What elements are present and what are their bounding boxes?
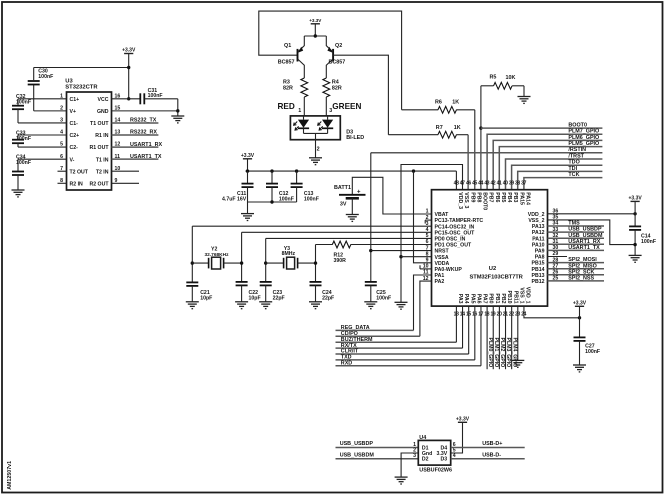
svg-text:USART1_TX: USART1_TX	[568, 245, 600, 251]
wire PA2 to CDIPO	[420, 281, 432, 336]
svg-text:3: 3	[426, 221, 429, 227]
svg-text:10pF: 10pF	[200, 295, 212, 301]
svg-text:32.768KHz: 32.768KHz	[205, 252, 230, 258]
net TMS	[548, 225, 605, 227]
svg-text:PB10: PB10	[506, 291, 512, 304]
svg-text:+3.3V: +3.3V	[573, 301, 587, 307]
wire U2 pin 16 down	[474, 306, 476, 360]
transistor Q1 BC857	[297, 49, 299, 62]
capacitor C21 10pF	[186, 281, 198, 283]
wire cap bottoms	[248, 201, 297, 203]
svg-text:PLM7_GPIO: PLM7_GPIO	[568, 129, 599, 135]
svg-text:C1+: C1+	[70, 97, 80, 103]
svg-text:USART1_RX: USART1_RX	[130, 142, 162, 148]
crystal Y2 32.768KHz	[191, 226, 193, 282]
svg-text:3: 3	[413, 453, 416, 459]
svg-text:VCC: VCC	[98, 97, 109, 103]
svg-text:10pF: 10pF	[249, 296, 261, 302]
svg-text:PA11: PA11	[532, 236, 544, 242]
wire U2 pin 17 down	[480, 306, 482, 366]
svg-text:PA2: PA2	[435, 279, 445, 285]
svg-text:TCK: TCK	[568, 172, 579, 178]
net /RSTIN	[371, 152, 603, 154]
svg-text:48: 48	[454, 180, 459, 186]
wire VSS_2	[548, 220, 636, 245]
svg-text:40: 40	[503, 180, 508, 186]
ground under D3	[309, 157, 322, 159]
svg-text:TMS: TMS	[568, 221, 580, 227]
svg-text:100nF: 100nF	[641, 239, 656, 245]
svg-text:BOOT0: BOOT0	[482, 192, 488, 210]
capacitor C32 100nF	[18, 98, 67, 100]
svg-text:R1 OUT: R1 OUT	[89, 145, 109, 151]
net CD/PO	[336, 335, 420, 337]
U3 pin 7 stub	[58, 170, 67, 172]
svg-text:PB2: PB2	[500, 293, 506, 303]
wire PC15-OSC_OUT	[242, 231, 432, 233]
svg-text:/TRST: /TRST	[568, 153, 584, 159]
net PLM6_GPIO	[493, 140, 602, 189]
svg-text:PLM5_GPIO: PLM5_GPIO	[568, 141, 599, 147]
net PLM0_GPIO	[486, 306, 488, 369]
svg-text:PA0-WKUP: PA0-WKUP	[435, 267, 463, 273]
svg-text:12: 12	[423, 276, 429, 282]
svg-text:PB15: PB15	[532, 261, 545, 267]
led green element	[327, 116, 329, 120]
svg-text:BATT1: BATT1	[334, 185, 351, 191]
svg-text:Y2: Y2	[211, 246, 217, 252]
svg-text:D3: D3	[441, 457, 448, 463]
svg-text:47: 47	[460, 180, 465, 186]
svg-text:100nF: 100nF	[16, 100, 31, 106]
net PLM5_GPIO	[499, 147, 602, 190]
svg-text:43: 43	[484, 180, 489, 186]
resistor R4 82R	[323, 78, 330, 97]
svg-text:38: 38	[515, 180, 520, 186]
net SPI2_SCK	[548, 274, 605, 276]
wire /RSTIN to NRST and C25	[370, 153, 372, 282]
capacitor C13 100nF	[296, 171, 298, 184]
svg-text:R2 IN: R2 IN	[70, 181, 84, 187]
svg-text:PC15-OSC_OUT: PC15-OSC_OUT	[435, 230, 476, 236]
svg-text:VDDA: VDDA	[435, 261, 450, 267]
net TCK	[524, 178, 603, 190]
svg-text:NRST: NRST	[435, 249, 450, 255]
svg-text:USB-D+: USB-D+	[482, 441, 502, 447]
svg-text:100nF: 100nF	[16, 136, 31, 142]
svg-text:4.7uF 16V: 4.7uF 16V	[222, 196, 247, 202]
svg-text:/RSTIN: /RSTIN	[568, 147, 586, 153]
svg-text:PLM0_GPIO: PLM0_GPIO	[487, 338, 493, 368]
svg-text:100nF: 100nF	[304, 196, 319, 202]
svg-text:PA6: PA6	[475, 294, 481, 304]
power +3.3V at Q1/Q2	[311, 23, 320, 25]
svg-text:42: 42	[490, 180, 495, 186]
svg-text:SPI2_NSS: SPI2_NSS	[568, 276, 594, 282]
svg-text:USB-D-: USB-D-	[482, 453, 501, 459]
svg-text:PA7: PA7	[482, 294, 488, 304]
svg-text:100nF: 100nF	[376, 296, 391, 302]
net USB_USBDP at U4	[336, 447, 419, 449]
svg-text:+3.3V: +3.3V	[309, 18, 322, 23]
svg-text:PB6: PB6	[494, 192, 500, 202]
ground under C25	[364, 301, 377, 303]
svg-text:10: 10	[423, 264, 429, 270]
svg-text:+3.3V: +3.3V	[628, 196, 642, 202]
U2 pin 29 stub	[548, 256, 568, 258]
svg-text:V-: V-	[70, 157, 75, 163]
svg-text:45: 45	[472, 180, 477, 186]
IC U3 ST3232CTR	[67, 92, 112, 190]
svg-text:PD0 OSC_IN: PD0 OSC_IN	[435, 237, 466, 243]
ground under C24	[309, 301, 322, 303]
net USART1_TX at U2	[548, 249, 605, 251]
svg-text:PA12: PA12	[532, 230, 545, 236]
svg-text:PB14: PB14	[532, 267, 545, 273]
capacitor C31 100nF	[139, 93, 141, 104]
svg-text:USB_USBDP: USB_USBDP	[568, 227, 602, 233]
svg-text:6: 6	[426, 239, 429, 245]
net RXD	[336, 365, 481, 367]
svg-text:D2: D2	[422, 457, 429, 463]
svg-text:1K: 1K	[452, 100, 459, 106]
svg-text:39: 39	[509, 180, 514, 186]
svg-text:100nF: 100nF	[16, 160, 31, 166]
net PLM2_GPIO	[498, 306, 500, 369]
ground under C14	[629, 254, 642, 256]
svg-text:USB_USBDM: USB_USBDM	[568, 233, 603, 239]
svg-text:8MHz: 8MHz	[282, 251, 296, 257]
net SPI2_MOSI	[548, 262, 605, 264]
wire VDD_1 to +3.3V	[524, 306, 580, 318]
svg-text:1: 1	[426, 209, 429, 215]
svg-text:VSS_1: VSS_1	[518, 287, 524, 303]
svg-text:GND: GND	[97, 109, 109, 115]
svg-text:BC857: BC857	[329, 59, 346, 65]
svg-text:PA15: PA15	[518, 192, 524, 205]
IC U4 USBUF02W6	[418, 440, 450, 465]
svg-text:BC857: BC857	[278, 59, 295, 65]
svg-text:Q1: Q1	[284, 43, 291, 49]
wire PC14-OSC32_IN	[192, 225, 431, 227]
svg-text:PB11: PB11	[512, 291, 518, 304]
svg-text:2: 2	[426, 215, 429, 221]
svg-text:R2 OUT: R2 OUT	[89, 181, 109, 187]
svg-text:PLM1_GPIO: PLM1_GPIO	[493, 338, 499, 368]
svg-text:PLM2_GPIO: PLM2_GPIO	[499, 338, 505, 368]
net PLM3_GPIO	[505, 306, 507, 369]
svg-text:AM12507v1: AM12507v1	[7, 461, 13, 490]
wire C30 to +3.3V rail	[34, 67, 129, 69]
capacitor C25 100nF	[365, 281, 377, 283]
net TXD	[336, 359, 475, 361]
capacitor C22 10pF	[241, 232, 243, 282]
svg-text:100nF: 100nF	[585, 349, 600, 355]
svg-text:ST3232CTR: ST3232CTR	[65, 84, 98, 90]
wire VDD_2 to +3.3V	[548, 213, 636, 215]
ground at R5	[518, 96, 531, 98]
svg-text:3: 3	[329, 108, 332, 114]
svg-text:PB4: PB4	[506, 192, 512, 202]
svg-text:100nF: 100nF	[38, 74, 53, 80]
svg-text:PA8: PA8	[535, 255, 545, 261]
power +3.3V rail	[246, 170, 457, 172]
svg-text:22pF: 22pF	[322, 296, 334, 302]
net BUZ/THERM	[336, 341, 457, 343]
svg-text:BI-LED: BI-LED	[346, 135, 364, 141]
svg-text:VBAT: VBAT	[435, 212, 450, 218]
net USB-D+	[451, 447, 525, 449]
power +3.3V at U4	[458, 421, 467, 423]
svg-text:PB8: PB8	[475, 192, 481, 202]
svg-text:11: 11	[423, 270, 429, 276]
svg-text:10K: 10K	[506, 75, 516, 81]
ground under VSS_1	[511, 359, 524, 361]
svg-text:RXD: RXD	[341, 361, 352, 367]
svg-text:PC13-TAMPER-RTC: PC13-TAMPER-RTC	[435, 218, 484, 224]
U3 pin 10 stub	[112, 170, 140, 172]
svg-text:PA1: PA1	[435, 273, 445, 279]
ground under C11	[241, 213, 254, 215]
svg-text:V+: V+	[70, 109, 77, 115]
svg-text:C1-: C1-	[70, 121, 79, 127]
U3 GND pin15 wire	[112, 110, 178, 112]
svg-text:PB3: PB3	[512, 192, 518, 202]
svg-text:37: 37	[521, 180, 526, 186]
net USART1_TX	[112, 158, 159, 160]
svg-text:PA4: PA4	[463, 294, 469, 304]
net CLR/IT	[336, 353, 469, 355]
wire R6 to PB8 pin 45	[474, 110, 476, 190]
svg-text:T1 OUT: T1 OUT	[90, 121, 109, 127]
net TDI	[518, 171, 603, 189]
U2 pin 10 stub	[420, 268, 432, 270]
net PLM1_GPIO	[492, 306, 494, 369]
capacitor C27 100nF	[574, 336, 586, 338]
svg-text:R7: R7	[436, 125, 443, 131]
net SPI2_NSS	[548, 280, 605, 282]
ground under BATT1	[346, 214, 359, 216]
wire NRST	[371, 250, 432, 252]
power +3.3V at U3	[124, 53, 133, 55]
svg-text:8: 8	[426, 251, 429, 257]
svg-text:+: +	[357, 189, 361, 195]
U3 VCC pin16 wire	[112, 98, 141, 100]
ground at C31	[171, 115, 184, 117]
svg-text:T2 OUT: T2 OUT	[70, 169, 89, 175]
net USART1_RX	[112, 146, 159, 148]
U2 pin 2 stub	[425, 219, 431, 221]
svg-text:USART1_RX: USART1_RX	[568, 239, 600, 245]
svg-text:PA13: PA13	[532, 224, 545, 230]
svg-text:VSS_3: VSS_3	[463, 192, 469, 208]
svg-text:VDD_3: VDD_3	[457, 192, 463, 209]
svg-text:USB_USBDP: USB_USBDP	[340, 441, 374, 447]
svg-text:T1 IN: T1 IN	[96, 157, 109, 163]
svg-text:1K: 1K	[454, 125, 461, 131]
svg-text:5: 5	[426, 233, 429, 239]
net TDO	[512, 165, 603, 190]
svg-text:VDD_2: VDD_2	[528, 212, 545, 218]
net USB-D-	[451, 458, 525, 460]
svg-text:PLM3_GPIO: PLM3_GPIO	[505, 338, 511, 368]
bi-led D3 box	[290, 116, 340, 140]
wire U2 pin 13 down	[455, 306, 457, 342]
net PLM4_GPIO	[511, 306, 513, 369]
svg-text:U4: U4	[419, 435, 426, 441]
svg-text:SPI2_MISO: SPI2_MISO	[568, 263, 596, 269]
wire U2 pin 15 down	[468, 306, 470, 354]
capacitor C34 100nF	[18, 158, 67, 160]
net RS232_RX	[112, 134, 159, 136]
svg-text:PA14: PA14	[525, 192, 531, 205]
ground at U4	[395, 476, 408, 478]
power +3.3V at C27	[575, 305, 584, 307]
svg-text:BOOT0: BOOT0	[568, 122, 587, 128]
ground under C21	[186, 301, 199, 303]
svg-text:VSS_2: VSS_2	[528, 218, 544, 224]
wire R5 to BOOT0 pin 44	[480, 86, 482, 190]
battery BATT1 3V	[352, 177, 431, 214]
wire VDDA to +3.3V rail	[414, 171, 432, 263]
svg-text:VSSA: VSSA	[435, 255, 449, 261]
led common cathode wire	[304, 132, 328, 134]
svg-text:82R: 82R	[332, 86, 342, 92]
svg-text:PA3: PA3	[457, 294, 463, 304]
svg-text:RED: RED	[278, 102, 295, 111]
svg-text:PC14-OSC32_IN: PC14-OSC32_IN	[435, 224, 475, 230]
resistor R5 10K	[481, 85, 494, 87]
svg-text:SPI2_SCK: SPI2_SCK	[568, 269, 594, 275]
wire VSS_1 to ground	[517, 306, 519, 360]
wire R7 to PB9 pin 46	[467, 135, 469, 190]
wire PD0 OSC_IN	[266, 237, 432, 239]
svg-text:PA5: PA5	[469, 294, 475, 304]
ground at VSSA	[395, 301, 408, 303]
svg-text:41: 41	[497, 180, 502, 186]
svg-text:PA9: PA9	[535, 249, 545, 255]
svg-text:390R: 390R	[334, 258, 347, 264]
capacitor C23 22pF	[260, 281, 272, 283]
svg-text:PB12: PB12	[532, 279, 545, 285]
resistor R3 82R	[301, 78, 308, 97]
svg-text:PA10: PA10	[532, 242, 545, 248]
svg-text:+3.3V: +3.3V	[241, 153, 255, 159]
net USB_USBDM at U2	[548, 237, 605, 239]
power +3.3V at C14	[631, 200, 640, 202]
svg-text:4: 4	[426, 227, 429, 233]
svg-text:TDI: TDI	[568, 166, 577, 172]
svg-text:RS232_RX: RS232_RX	[130, 130, 157, 136]
svg-text:R1 IN: R1 IN	[95, 133, 109, 139]
net PLM7_GPIO	[487, 134, 602, 190]
wire Q1 base to top rail	[259, 11, 402, 110]
svg-text:PB1: PB1	[494, 293, 500, 303]
svg-text:VDD_1: VDD_1	[525, 287, 531, 304]
capacitor C33 100nF	[18, 134, 67, 136]
capacitor C30 100nF	[34, 110, 67, 112]
net BOOT0	[481, 127, 603, 129]
net USB_USBDM at U4	[336, 458, 419, 460]
ground rail VSS_3	[401, 165, 463, 303]
emitter rail	[304, 35, 326, 37]
capacitor C11 4.7uF	[247, 171, 249, 184]
transistor Q2 BC857	[332, 49, 334, 62]
svg-text:C2+: C2+	[70, 133, 80, 139]
resistor R7 1K	[388, 134, 438, 136]
svg-text:PB7: PB7	[488, 192, 494, 202]
resistor R6 1K	[402, 109, 439, 111]
svg-text:100nF: 100nF	[279, 196, 294, 202]
wire VSSA	[401, 256, 432, 258]
svg-text:R6: R6	[435, 100, 442, 106]
svg-text:7: 7	[426, 245, 429, 251]
svg-text:2: 2	[317, 146, 320, 152]
ground under C23	[259, 301, 272, 303]
svg-text:RS232_TX: RS232_TX	[130, 118, 157, 124]
wire Q2 base to R7	[333, 55, 388, 135]
svg-text:C2-: C2-	[70, 145, 79, 151]
led red element	[303, 116, 305, 120]
wire U2 pin 14 down	[462, 306, 464, 348]
svg-text:PB13: PB13	[532, 273, 545, 279]
resistor R12 390R	[315, 245, 317, 282]
svg-text:TDO: TDO	[568, 160, 579, 166]
net RS232_TX	[112, 122, 159, 124]
svg-text:22pF: 22pF	[273, 296, 285, 302]
svg-text:Q2: Q2	[335, 43, 342, 49]
svg-text:3V: 3V	[340, 202, 347, 208]
svg-text:9: 9	[426, 258, 429, 264]
svg-text:PB5: PB5	[500, 192, 506, 202]
wire PA1 to REG_DATA	[414, 275, 432, 330]
svg-text:1: 1	[298, 108, 301, 114]
ground under C34	[12, 189, 25, 191]
IC U2 STM32F103CBT7TR	[432, 190, 548, 306]
U3 pin 8 stub	[58, 182, 67, 184]
svg-text:USBUF02W6: USBUF02W6	[419, 468, 452, 474]
svg-text:44: 44	[478, 180, 483, 186]
svg-text:STM32F103CBT7TR: STM32F103CBT7TR	[470, 275, 524, 281]
svg-text:T2 IN: T2 IN	[96, 169, 109, 175]
U3 pin 9 stub	[112, 182, 140, 184]
ground under C27	[573, 364, 586, 366]
capacitor C12 100nF	[271, 171, 273, 184]
svg-text:46: 46	[466, 180, 471, 186]
svg-text:USB_USBDM: USB_USBDM	[340, 453, 375, 459]
svg-text:U2: U2	[489, 266, 496, 272]
svg-text:PLM6_GPIO: PLM6_GPIO	[568, 135, 599, 141]
ground under C22	[235, 301, 248, 303]
capacitor C24 22pF	[310, 281, 322, 283]
net REG_DATA	[336, 329, 414, 331]
svg-text:USART1_TX: USART1_TX	[130, 154, 162, 160]
svg-text:R5: R5	[490, 74, 497, 80]
net SPI2_MISO	[548, 268, 605, 270]
svg-text:PB9: PB9	[469, 192, 475, 202]
net USB_USBDP at U2	[548, 231, 605, 233]
net /TRST	[506, 159, 603, 190]
svg-text:+3.3V: +3.3V	[122, 48, 136, 54]
wire U4 gnd pin2	[401, 453, 418, 477]
svg-text:+3.3V: +3.3V	[456, 417, 470, 423]
net RX/TX	[336, 347, 463, 349]
capacitor C14 100nF	[629, 225, 641, 227]
wire U4 3.3V pin5	[451, 422, 463, 453]
svg-text:SPI2_MOSI: SPI2_MOSI	[568, 257, 597, 263]
svg-text:PB0: PB0	[488, 293, 494, 303]
svg-text:PD1 OSC_OUT: PD1 OSC_OUT	[435, 243, 472, 249]
